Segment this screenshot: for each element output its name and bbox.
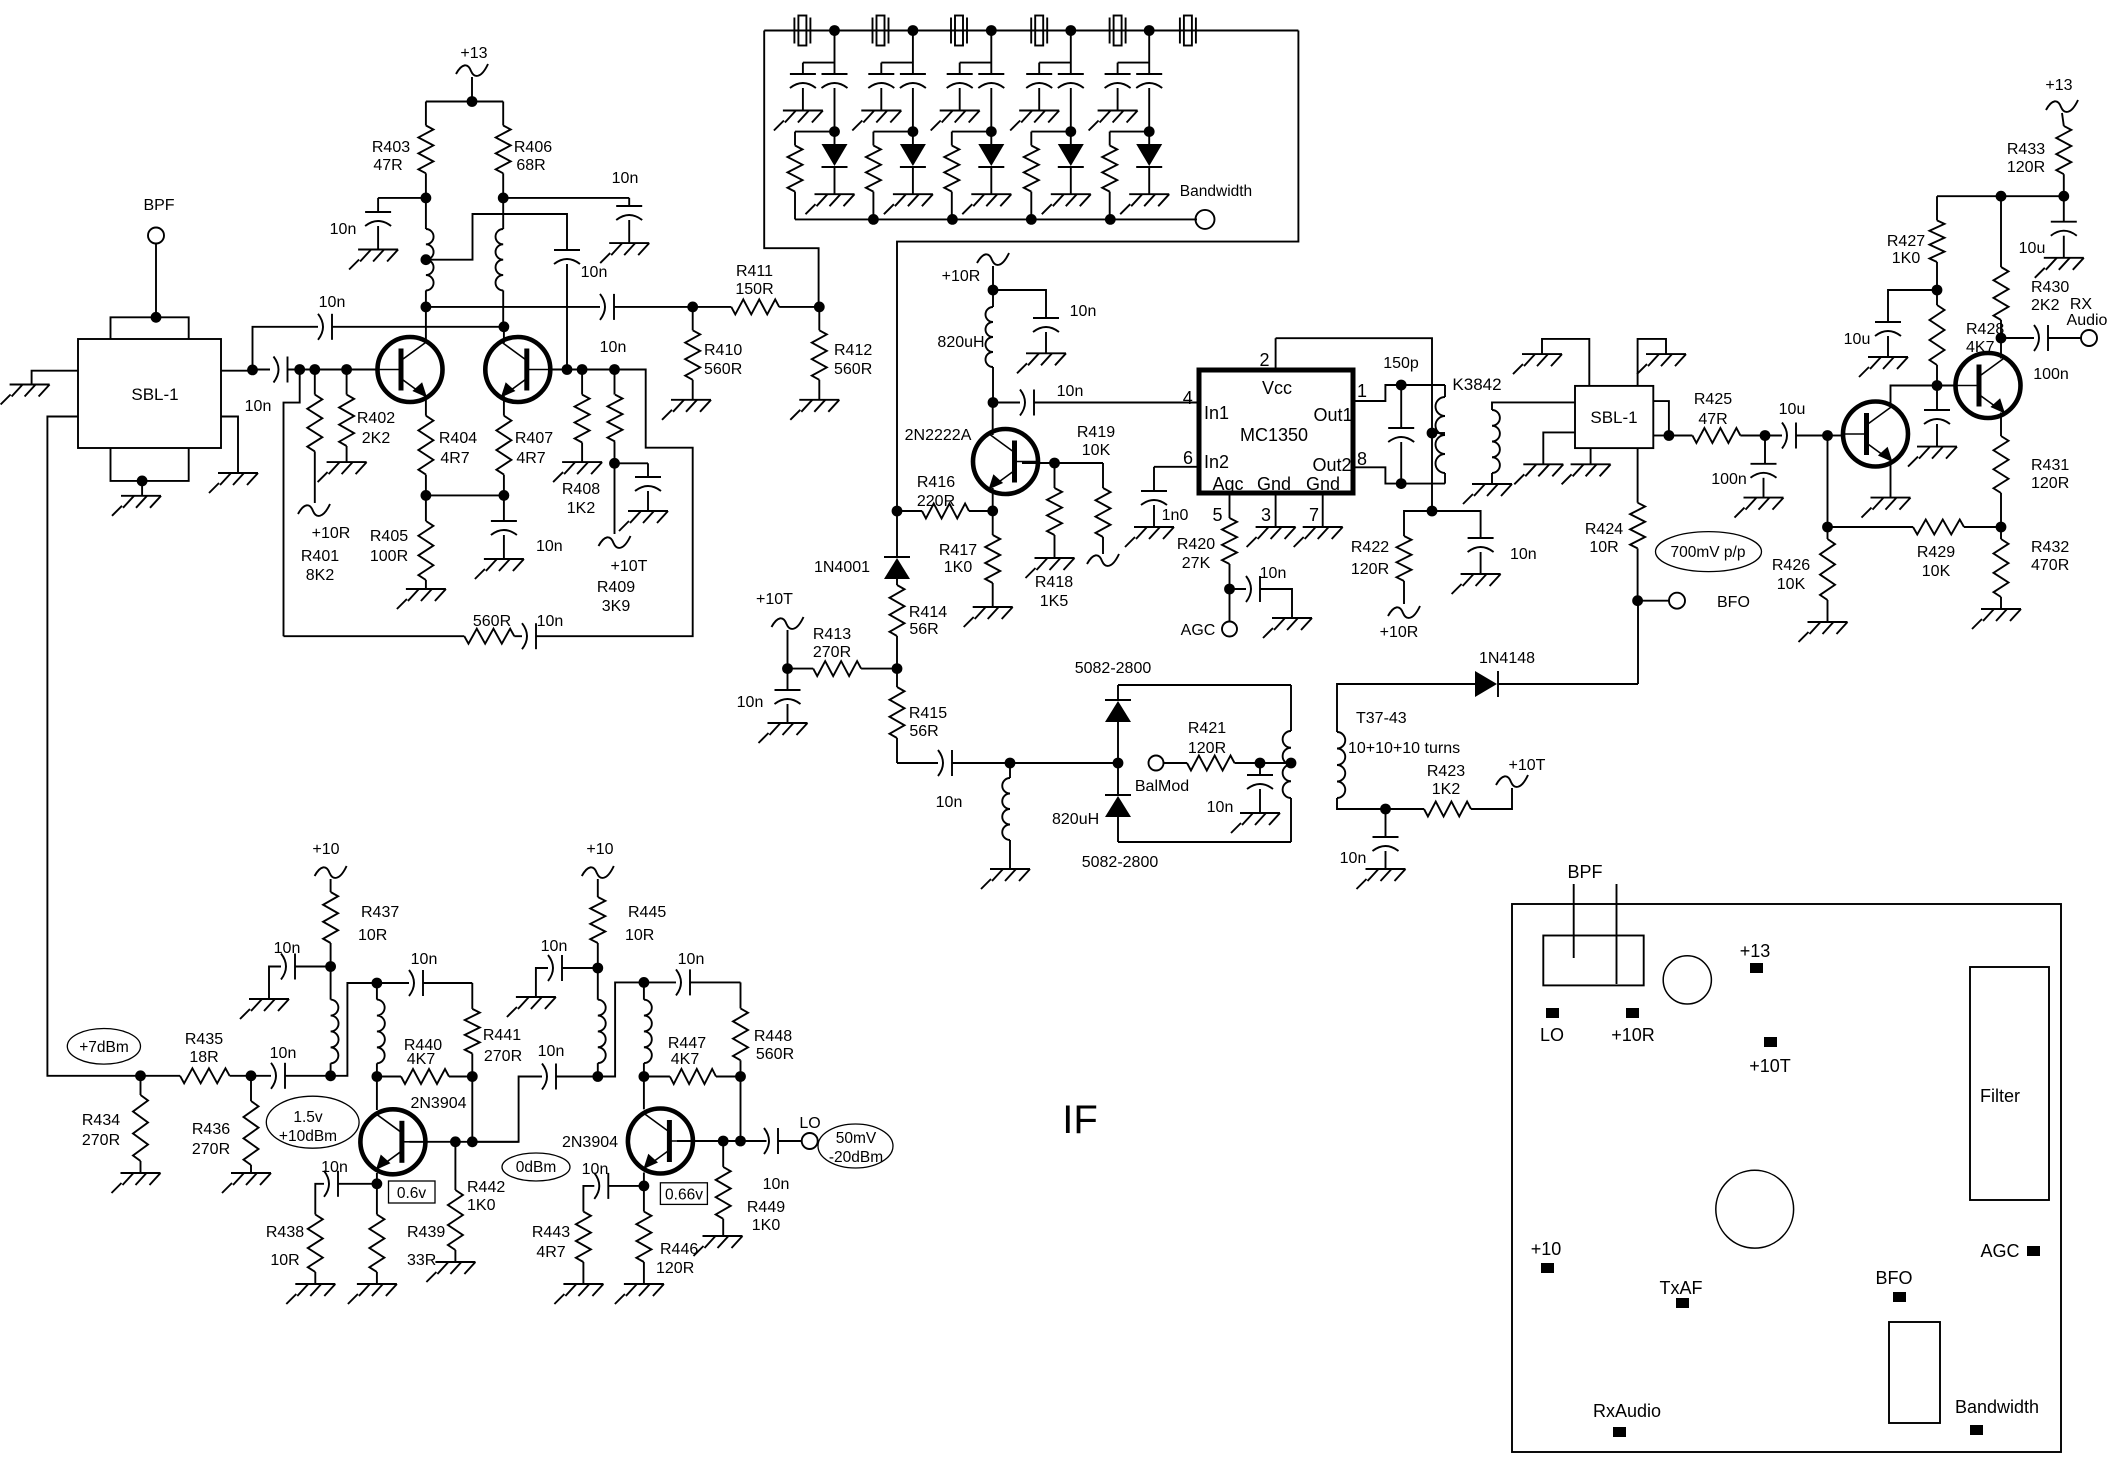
resistor R411 150R: [693, 263, 820, 314]
svg-text:R410: R410: [704, 342, 742, 359]
node R440/R441: [467, 1071, 478, 1082]
node BFO terminal: [1669, 593, 1750, 611]
PCB pad RxAudio: [1593, 1401, 1661, 1437]
resistor R405 100R: [370, 495, 434, 589]
ground varactor 5: [1120, 194, 1169, 214]
svg-text:56R: 56R: [909, 723, 938, 740]
inductor st1 coil1: [331, 967, 339, 1076]
capacitor 10n to In1: [993, 383, 1199, 416]
svg-text:RxAudio: RxAudio: [1593, 1401, 1661, 1421]
svg-text:47R: 47R: [1698, 411, 1727, 428]
diode 1N4148: [1475, 650, 1638, 697]
svg-text:10n: 10n: [274, 940, 301, 957]
capacitor 10n input coupling: [245, 357, 300, 416]
annotation +7dBm: [67, 1029, 140, 1065]
resistor section 1: [788, 132, 835, 220]
resistor R426 10K: [1772, 527, 1835, 622]
wire BPF to SBL-1: [151, 244, 162, 323]
ground R408: [553, 462, 602, 482]
resistor R435 18R: [141, 1031, 252, 1083]
svg-text:220R: 220R: [917, 493, 955, 510]
diode 1N4001: [814, 511, 910, 585]
svg-text:10n: 10n: [321, 1159, 348, 1176]
svg-text:Audio: Audio: [2067, 312, 2108, 329]
resistor R427 1K0: [1887, 196, 1945, 290]
inductor choke L1: [426, 198, 434, 307]
ground varactor 2: [884, 194, 933, 214]
ground R434: [112, 1173, 161, 1193]
capacitor 10u coupling: [1765, 401, 1833, 449]
svg-text:R424: R424: [1585, 521, 1623, 538]
svg-text:R443: R443: [532, 1224, 570, 1241]
svg-text:10n: 10n: [581, 264, 608, 281]
node R445 bypass: [592, 963, 603, 974]
svg-text:R449: R449: [747, 1199, 785, 1216]
PCB pad TxAF: [1660, 1278, 1703, 1308]
svg-text:R404: R404: [439, 430, 477, 447]
wire SBL-1#2 lower-left pin: [1543, 432, 1575, 464]
crystal X3: [951, 16, 967, 46]
svg-text:R437: R437: [361, 904, 399, 921]
ground SBL-1#2 top-right: [1637, 354, 1686, 374]
svg-text:120R: 120R: [2031, 475, 2069, 492]
crystal X6: [1180, 16, 1196, 46]
diode 5082-2800 lower: [1082, 763, 1159, 871]
svg-text:+10T: +10T: [756, 591, 793, 608]
resistor R448 560R: [733, 982, 794, 1076]
svg-text:10n: 10n: [1070, 303, 1097, 320]
svg-text:7: 7: [1309, 505, 1319, 525]
svg-text:50mV: 50mV: [836, 1130, 877, 1147]
pin 7 Gnd: [1309, 493, 1323, 527]
svg-text:10n: 10n: [538, 1043, 565, 1060]
capacitor 10n feedback: [514, 613, 563, 649]
capacitor 10n R421: [1207, 763, 1273, 816]
power +13 top: [456, 45, 488, 102]
svg-text:+10dBm: +10dBm: [279, 1128, 337, 1145]
node stage1 input: [325, 1070, 336, 1081]
power +10T R423: [1496, 757, 1546, 787]
power +10 stage2: [582, 841, 614, 897]
ground SBL-1#2 lower-left: [1514, 464, 1563, 484]
wire filter top line: [764, 30, 1298, 32]
resistor R406 68R: [496, 126, 553, 198]
svg-text:10n: 10n: [319, 294, 346, 311]
svg-text:100R: 100R: [370, 548, 408, 565]
ground R412: [790, 400, 839, 420]
annotation 50mV -20dBm: [818, 1124, 893, 1168]
resistor R446 120R: [636, 1186, 698, 1284]
transistor Q3 2N3904: [360, 1095, 466, 1174]
resistor section 5: [1102, 132, 1149, 220]
wire SBL-1 left pin: [32, 371, 78, 385]
annotation 1.5v +10dBm: [266, 1096, 359, 1148]
svg-text:47R: 47R: [373, 157, 402, 174]
resistor R424 10R: [1585, 448, 1645, 601]
node R412 top: [814, 302, 825, 313]
wire R415 to BalMod: [897, 762, 938, 764]
svg-text:68R: 68R: [516, 157, 545, 174]
resistor R430 2K2: [1994, 196, 2070, 338]
wire bias node drop: [1822, 436, 1833, 533]
capacitor 10n st2 fb: [644, 951, 741, 995]
svg-text:BFO: BFO: [1717, 594, 1750, 611]
svg-text:120R: 120R: [1351, 561, 1389, 578]
svg-text:R411: R411: [736, 263, 773, 280]
svg-text:150p: 150p: [1383, 355, 1419, 372]
svg-text:33R: 33R: [407, 1252, 436, 1269]
svg-text:+7dBm: +7dBm: [79, 1039, 129, 1056]
svg-text:10+10+10 turns: 10+10+10 turns: [1348, 740, 1460, 757]
varactor diode D3: [978, 132, 1004, 195]
wire SBL-1 top pins: [111, 317, 189, 339]
svg-text:Gnd: Gnd: [1306, 474, 1340, 494]
svg-text:R438: R438: [266, 1224, 304, 1241]
resistor R425 47R: [1669, 391, 1765, 443]
svg-text:R442: R442: [467, 1179, 505, 1196]
resistor R443 4R7: [532, 1212, 591, 1284]
wire Q4 base: [677, 1136, 767, 1147]
svg-text:10n: 10n: [1340, 850, 1367, 867]
svg-text:R412: R412: [834, 342, 872, 359]
ground 10u Q5: [1859, 357, 1908, 377]
pin 2 Vcc: [1259, 338, 1275, 370]
inductor st1 coil2: [372, 983, 385, 1082]
node Q6 base: [1932, 380, 1943, 391]
svg-text:2K2: 2K2: [362, 430, 391, 447]
node R431/R432: [1996, 522, 2007, 533]
ground R442: [426, 1262, 475, 1282]
wire SBL-1 output to base row: [221, 365, 258, 376]
wire Q2 base row: [550, 364, 645, 375]
transistor Q4 2N3904: [562, 1109, 693, 1174]
resistor R429 10K: [1828, 520, 2002, 581]
svg-text:R406: R406: [514, 139, 552, 156]
capacitor 10n balmod: [936, 750, 1118, 811]
svg-text:R403: R403: [372, 139, 410, 156]
svg-text:1N4148: 1N4148: [1479, 650, 1535, 667]
ground SBL-1#2 top-left: [1513, 354, 1562, 374]
svg-text:2K2: 2K2: [2031, 297, 2060, 314]
capacitor 10n tap coupling: [554, 250, 607, 370]
svg-text:R431: R431: [2031, 457, 2069, 474]
wire Q5 base: [1828, 435, 1844, 437]
svg-text:3K9: 3K9: [602, 598, 631, 615]
pin 8 Out2: [1353, 449, 1401, 484]
resistor R447 4K7: [644, 1035, 741, 1084]
svg-text:R407: R407: [515, 430, 553, 447]
resistor R407 4R7: [496, 416, 553, 496]
resistor R418 1K5: [1035, 463, 1073, 610]
svg-text:R436: R436: [192, 1121, 230, 1138]
svg-text:120R: 120R: [1188, 740, 1226, 757]
svg-text:10n: 10n: [411, 951, 438, 968]
capacitor 10n st2 bypass: [536, 938, 598, 997]
svg-text:270R: 270R: [813, 644, 851, 661]
capacitor 10n bypass right: [612, 170, 643, 243]
wire R448 to base: [735, 1077, 746, 1147]
diode 5082-2800 upper: [1075, 660, 1152, 763]
ground st2 bypass: [507, 997, 556, 1017]
ground st1 bypass: [240, 999, 289, 1019]
resistor section 3: [944, 132, 991, 220]
svg-text:120R: 120R: [656, 1260, 694, 1277]
node 820uH2 top: [1005, 758, 1016, 769]
svg-text:18R: 18R: [189, 1049, 218, 1066]
svg-text:Gnd: Gnd: [1257, 474, 1291, 494]
svg-text:R422: R422: [1351, 539, 1389, 556]
svg-text:1K0: 1K0: [752, 1217, 781, 1234]
resistor R441 270R: [465, 983, 522, 1077]
power +10T for R409: [599, 463, 648, 575]
PCB pad +10T: [1749, 1037, 1791, 1076]
svg-text:In2: In2: [1204, 452, 1229, 472]
svg-text:+10: +10: [312, 841, 339, 858]
svg-text:+10T: +10T: [1509, 757, 1546, 774]
label IF: [1062, 1098, 1098, 1142]
node R406 bypass: [498, 193, 629, 207]
svg-text:1K0: 1K0: [1892, 250, 1921, 267]
pin 6 In2: [1154, 448, 1199, 468]
PCB pad +10: [1531, 1239, 1562, 1273]
ground AGC cap: [1263, 618, 1312, 638]
annotation 0.66v: [660, 1183, 707, 1205]
svg-text:0.66v: 0.66v: [665, 1187, 703, 1204]
capacitor 150p: [1383, 355, 1419, 489]
ground +10T bypass: [759, 723, 808, 743]
PCB pad LO: [1540, 1008, 1564, 1045]
node diode junction: [1113, 758, 1124, 769]
node RX Audio terminal: [2067, 296, 2108, 346]
svg-text:R435: R435: [185, 1031, 223, 1048]
ground SBL-1 bottom: [112, 496, 161, 516]
resistor section 2: [866, 132, 913, 220]
svg-text:+10R: +10R: [1611, 1025, 1655, 1045]
wire SBL-1#2 output: [1653, 401, 1674, 441]
annotation 0dBm: [502, 1153, 570, 1181]
wire emitter join: [421, 490, 510, 501]
svg-text:4R7: 4R7: [440, 450, 469, 467]
node R403 bypass: [378, 193, 431, 213]
svg-text:10n: 10n: [537, 613, 564, 630]
resistor R415 56R: [890, 669, 948, 763]
ground R432: [1972, 609, 2021, 629]
svg-text:5082-2800: 5082-2800: [1075, 660, 1152, 677]
svg-text:LO: LO: [799, 1115, 820, 1132]
svg-text:5: 5: [1212, 505, 1222, 525]
svg-text:R414: R414: [909, 604, 947, 621]
svg-text:470R: 470R: [2031, 557, 2069, 574]
capacitor pair section 5: [1105, 25, 1163, 137]
wire st1 tap loop: [331, 978, 383, 1076]
capacitor 10n st1 emitter: [315, 1159, 377, 1215]
wire Q3 base: [410, 1136, 519, 1147]
wire Q2 collector: [503, 327, 505, 343]
svg-text:10n: 10n: [536, 538, 563, 555]
svg-text:1N4001: 1N4001: [814, 559, 870, 576]
wire diode top rail: [1118, 684, 1291, 686]
svg-text:8: 8: [1357, 449, 1367, 469]
node AGC: [1224, 584, 1235, 595]
capacitor 10n st2 emitter: [582, 1161, 644, 1212]
capacitor 10n interstage: [538, 1043, 598, 1090]
svg-text:-20dBm: -20dBm: [829, 1149, 883, 1166]
resistor section 4: [1024, 132, 1071, 220]
svg-text:R446: R446: [660, 1241, 698, 1258]
ground R443: [554, 1284, 603, 1304]
resistor R412 560R: [812, 307, 873, 400]
svg-text:R415: R415: [909, 705, 947, 722]
ground cap section 3: [931, 111, 980, 131]
svg-text:10K: 10K: [1922, 563, 1951, 580]
capacitor 10n emitter bypass: [491, 495, 563, 559]
svg-text:R409: R409: [597, 579, 635, 596]
resistor R439 33R: [369, 1184, 445, 1284]
power +10R for R401: [298, 504, 350, 584]
capacitor 10n st1 fb: [377, 951, 472, 996]
capacitor 10n bypass left: [330, 212, 391, 250]
wire collector bus: [426, 306, 600, 308]
svg-text:5082-2800: 5082-2800: [1082, 854, 1159, 871]
svg-text:10n: 10n: [936, 794, 963, 811]
inductor st2 coil2: [639, 982, 652, 1082]
resistor R442 1K0: [448, 1142, 505, 1262]
wire Q6 collector: [1996, 333, 2007, 359]
svg-text:In1: In1: [1204, 403, 1229, 423]
resistor R432 470R: [1994, 527, 2070, 609]
PCB pad +13: [1740, 941, 1771, 973]
resistor R410 560R: [685, 307, 742, 400]
resistor R404 4R7: [418, 416, 477, 496]
svg-text:Filter: Filter: [1980, 1086, 2020, 1106]
svg-text:R441: R441: [483, 1027, 521, 1044]
svg-text:R427: R427: [1887, 233, 1925, 250]
svg-text:AGC: AGC: [1181, 622, 1216, 639]
ground varactor 1: [806, 194, 855, 214]
ground R421 cap: [1231, 813, 1280, 833]
ground 100n: [1735, 498, 1784, 518]
node R414/R415: [892, 663, 903, 674]
svg-text:10n: 10n: [245, 398, 272, 415]
capacitor 100n RX out: [2001, 325, 2081, 383]
wire +13 bus: [426, 96, 503, 125]
wire feedback row: [284, 635, 465, 637]
label BPF pcb: [1567, 862, 1602, 882]
wire R441 to base: [467, 1077, 478, 1148]
wire feedback dropper: [284, 370, 300, 637]
wire Q4 emitter: [639, 1173, 650, 1192]
pin 5 Agc: [1212, 493, 1229, 525]
svg-text:10n: 10n: [330, 221, 357, 238]
svg-text:R413: R413: [813, 626, 851, 643]
capacitor pair section 1: [790, 25, 848, 137]
node R436 top: [246, 1070, 257, 1081]
PCB pad BFO: [1875, 1268, 1912, 1302]
capacitor Q6 base bypass: [1924, 386, 1950, 447]
svg-text:4R7: 4R7: [516, 450, 545, 467]
svg-text:10n: 10n: [737, 694, 764, 711]
resistor R433 120R: [2007, 126, 2071, 196]
PCB footprint small: [1889, 1322, 1940, 1423]
svg-text:K3842: K3842: [1452, 375, 1501, 394]
svg-text:BalMod: BalMod: [1135, 778, 1189, 795]
svg-text:RX: RX: [2070, 296, 2093, 313]
resistor R449 1K0: [716, 1141, 786, 1236]
PCB pad AGC: [1980, 1241, 2040, 1261]
node R416 left: [892, 506, 903, 517]
svg-text:R408: R408: [562, 481, 600, 498]
svg-text:10n: 10n: [612, 170, 639, 187]
node 100n: [1760, 430, 1771, 441]
svg-text:4K7: 4K7: [407, 1051, 436, 1068]
resistor R421 120R: [1164, 720, 1292, 771]
node AGC terminal: [1181, 589, 1237, 639]
ground R418: [1026, 558, 1075, 578]
crystal X4: [1031, 16, 1047, 46]
svg-text:R429: R429: [1917, 544, 1955, 561]
capacitor 10n AGC: [1230, 565, 1293, 618]
svg-text:R432: R432: [2031, 539, 2069, 556]
resistor R413 270R: [788, 626, 898, 676]
svg-text:10R: 10R: [270, 1252, 299, 1269]
svg-text:Agc: Agc: [1212, 474, 1243, 494]
svg-text:27K: 27K: [1182, 555, 1211, 572]
svg-text:+13: +13: [2045, 77, 2072, 94]
node Bandwidth terminal: [1180, 183, 1252, 229]
crystal X1: [794, 16, 810, 46]
capacitor 10n R409 node: [615, 463, 662, 511]
svg-text:10n: 10n: [541, 938, 568, 955]
wire SBL-1#2 bottom pin: [1590, 448, 1592, 464]
PCB circle small: [1663, 956, 1711, 1004]
resistor R431 120R: [1994, 436, 2070, 527]
wire 2N2222A base: [1022, 458, 1103, 469]
svg-text:T37-43: T37-43: [1356, 710, 1407, 727]
ground R422 cap: [1452, 574, 1501, 594]
svg-text:3: 3: [1261, 505, 1271, 525]
svg-text:Bandwidth: Bandwidth: [1955, 1397, 2039, 1417]
resistor R422 120R: [1351, 511, 1432, 604]
wire line to Q2 collector: [253, 327, 311, 370]
ground cap section 5: [1089, 111, 1138, 131]
wire feedback return: [536, 370, 693, 637]
svg-text:10n: 10n: [600, 339, 627, 356]
wire Q2 emitter: [503, 396, 505, 416]
capacitor pair section 4: [1026, 25, 1084, 137]
svg-text:560R: 560R: [704, 361, 742, 378]
capacitor 10u +13 bypass: [2019, 196, 2077, 258]
ground 820uH2: [981, 869, 1030, 889]
varactor diode D5: [1136, 132, 1162, 195]
capacitor 10n +10T bypass: [737, 669, 801, 723]
svg-text:R425: R425: [1694, 391, 1732, 408]
svg-text:+10R: +10R: [312, 525, 351, 542]
wire +13 bus right: [1937, 191, 2069, 202]
svg-text:R418: R418: [1035, 574, 1073, 591]
resistor R437 10R: [323, 892, 399, 967]
ground +10R bypass: [1017, 353, 1066, 373]
varactor diode D4: [1058, 132, 1084, 195]
svg-text:10n: 10n: [270, 1045, 297, 1062]
inductor choke L2: [496, 198, 504, 327]
pin 1 Out1: [1353, 381, 1401, 401]
ground pin3: [1247, 527, 1296, 547]
svg-text:10u: 10u: [1844, 331, 1871, 348]
wire Q1 emitter: [425, 396, 427, 416]
svg-text:+10: +10: [586, 841, 613, 858]
resistor R428 4K7: [1930, 290, 2005, 386]
wire choke tap: [421, 214, 568, 265]
